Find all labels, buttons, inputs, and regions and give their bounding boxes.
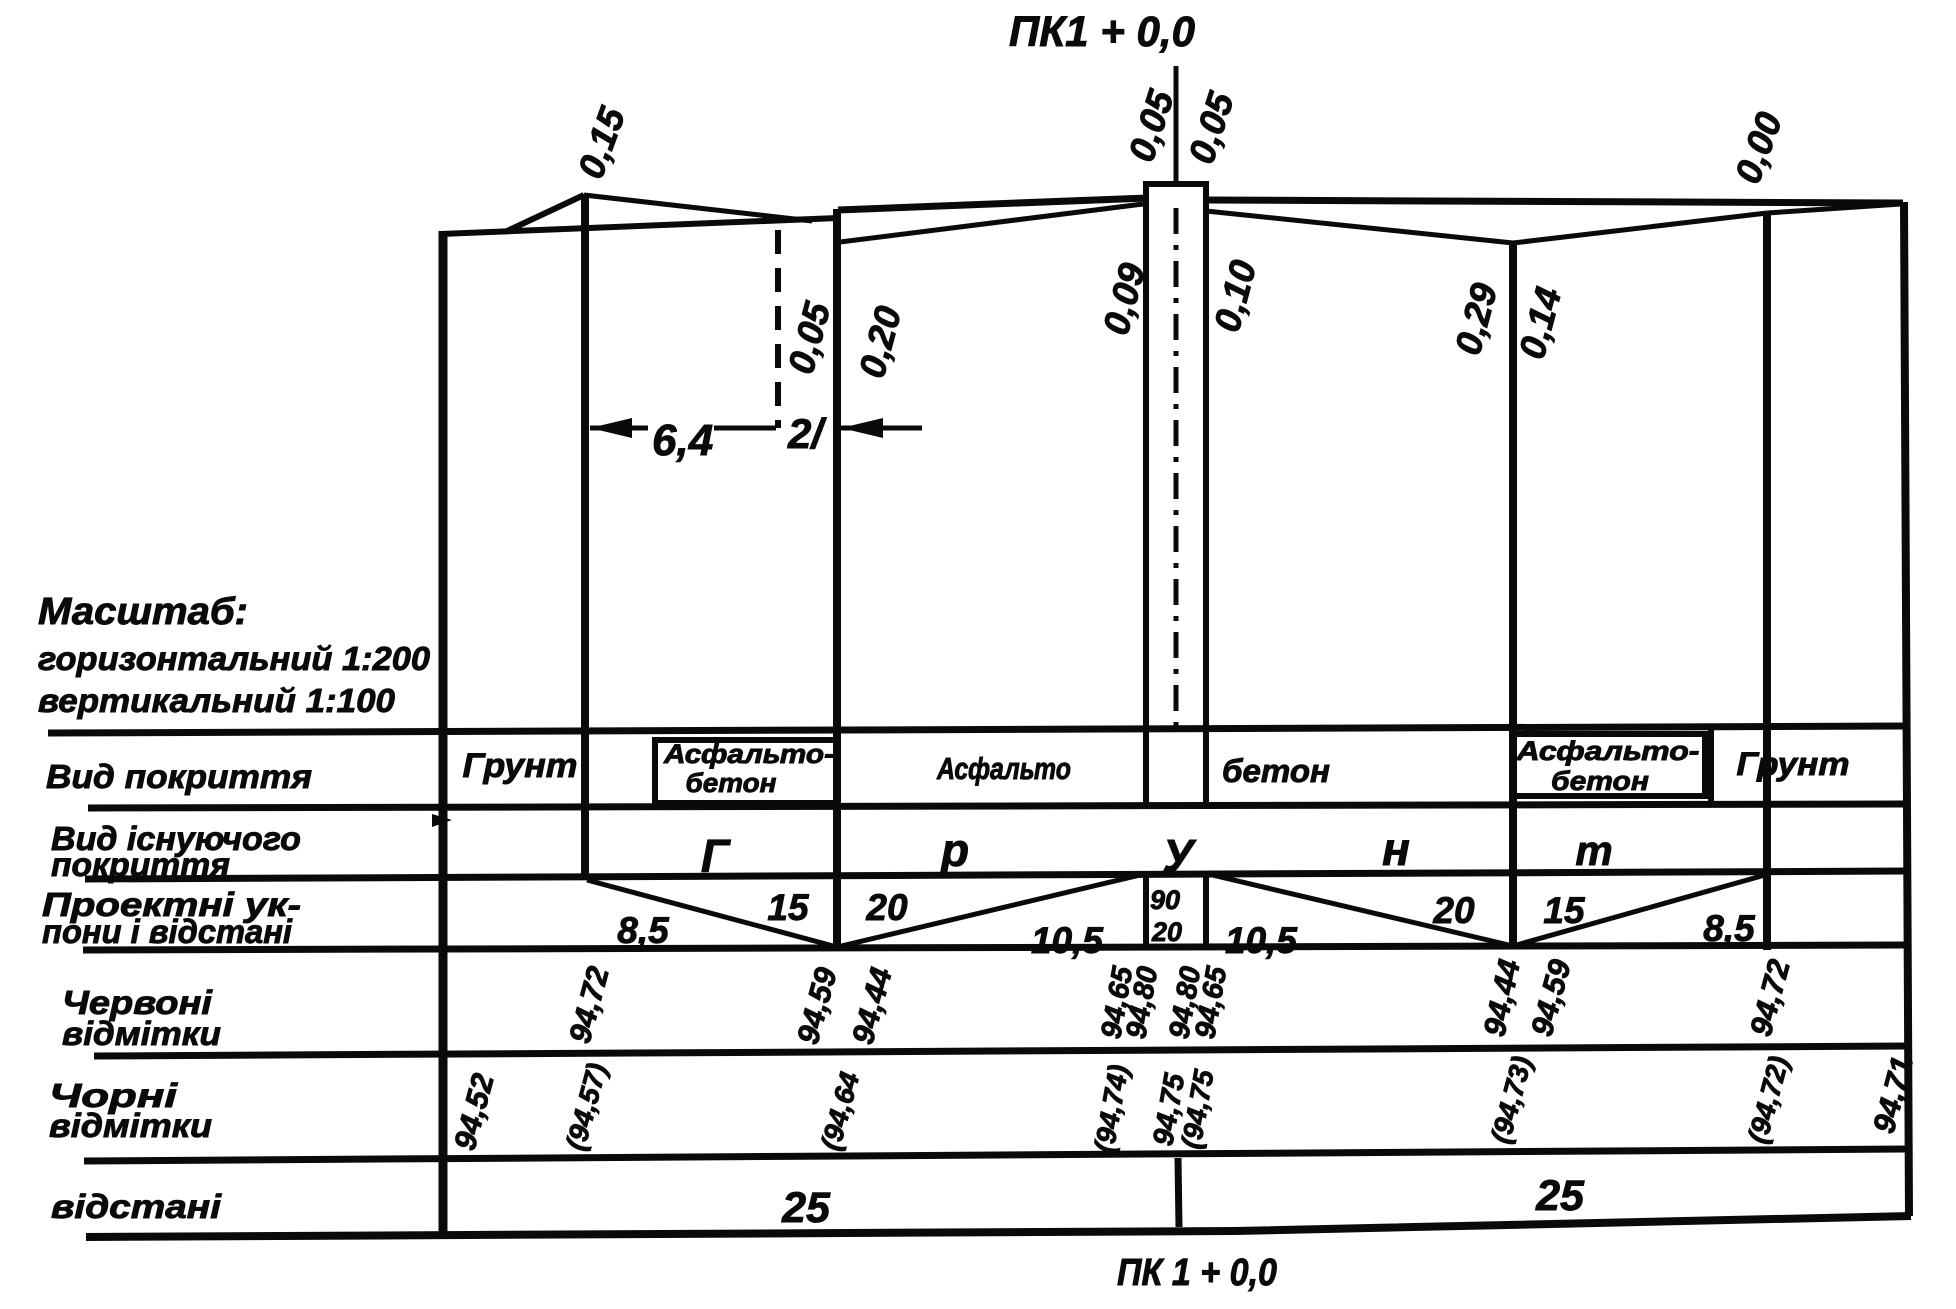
svg-text:бетон: бетон	[1222, 753, 1330, 789]
row5 black marks rotated	[447, 1053, 1920, 1155]
vertical center-right column	[1203, 200, 1209, 808]
svg-text:бетон: бетон	[1551, 766, 1649, 796]
design line rising to center	[838, 198, 1146, 210]
svg-text:Вид покриття: Вид покриття	[46, 758, 312, 795]
table left labels	[42, 758, 312, 1225]
rotated profile labels	[570, 84, 1790, 382]
svg-text:8,5: 8,5	[1703, 908, 1756, 949]
vertical at hill apex	[581, 194, 589, 878]
Masshtab block	[38, 591, 431, 719]
table horizontal line 7	[86, 1216, 1911, 1237]
svg-text:Масштаб:: Масштаб:	[38, 591, 248, 633]
hill left slope	[505, 195, 584, 232]
svg-text:2/: 2/	[787, 410, 827, 457]
vertical x1767	[1763, 213, 1771, 950]
svg-text:відмітки: відмітки	[49, 1107, 212, 1144]
row2 letters	[701, 823, 1613, 882]
svg-text:покриття: покриття	[51, 846, 230, 883]
svg-text:бетон: бетон	[686, 768, 777, 798]
slope diagram diagonals	[587, 880, 837, 947]
vertical right edge	[1904, 202, 1909, 1216]
existing ground right: to corner	[1767, 204, 1901, 213]
row1 inset box asphalt-beton right	[1513, 734, 1705, 796]
axis cap box	[1146, 184, 1206, 201]
vertical grunt right cell	[1708, 728, 1714, 804]
svg-text:20: 20	[865, 887, 908, 928]
svg-text:р: р	[939, 824, 969, 876]
svg-text:відстані: відстані	[51, 1188, 222, 1225]
svg-text:8,5: 8,5	[617, 910, 670, 951]
svg-text:ПК1 + 0,0: ПК1 + 0,0	[1009, 8, 1195, 56]
row6 divider	[1178, 1158, 1179, 1227]
svg-text:ПК 1 + 0,0: ПК 1 + 0,0	[1117, 1252, 1277, 1294]
existing ground wedge left of center	[840, 204, 1143, 242]
row4 red marks rotated	[562, 955, 1797, 1048]
table horizontal line 5	[94, 1046, 1911, 1056]
svg-text:m: m	[1575, 827, 1612, 874]
svg-text:Асфальто-: Асфальто-	[1515, 736, 1699, 766]
svg-text:Г: Г	[701, 830, 731, 882]
svg-text:Асфальто-: Асфальто-	[663, 739, 834, 769]
vertical left edge	[439, 231, 448, 1237]
svg-text:пони і відстані: пони і відстані	[42, 913, 293, 950]
design line right of center	[1206, 200, 1903, 203]
row1 cell texts	[463, 736, 1850, 798]
design line left	[441, 218, 838, 234]
table horizontal line 2	[88, 804, 1906, 808]
svg-text:90: 90	[1150, 885, 1180, 915]
vertical x838	[833, 209, 841, 948]
svg-text:Асфальто: Асфальто	[936, 751, 1071, 786]
table horizontal line 4	[83, 945, 1911, 950]
svg-text:15: 15	[1543, 890, 1586, 931]
svg-text:20: 20	[1432, 890, 1475, 931]
table horizontal line 3	[85, 871, 1911, 879]
row3 slope numbers	[617, 887, 1756, 961]
row1 inset box asphalt-beton left	[655, 740, 837, 803]
table horizontal line 1	[48, 726, 1906, 733]
svg-text:25: 25	[781, 1184, 831, 1232]
svg-text:У: У	[1162, 830, 1197, 882]
svg-text:15: 15	[767, 887, 810, 928]
svg-text:н: н	[1382, 823, 1410, 875]
table horizontal line 6	[84, 1149, 1911, 1161]
vertical x1513	[1509, 243, 1517, 948]
existing ground right: ascend	[1513, 213, 1767, 243]
dimension line 6,4 / 2,1	[590, 426, 648, 431]
svg-text:10,5: 10,5	[1225, 920, 1298, 961]
hill right slope	[584, 195, 812, 221]
svg-text:Грунт: Грунт	[463, 747, 578, 785]
row6 distances	[781, 1172, 1585, 1232]
svg-text:10,5: 10,5	[1031, 920, 1104, 961]
svg-text:25: 25	[1535, 1172, 1585, 1220]
existing ground right: descend	[1206, 211, 1513, 243]
dashed vertical dim	[775, 230, 781, 428]
svg-text:горизонтальний 1:200: горизонтальний 1:200	[38, 640, 431, 677]
svg-text:вертикальний 1:100: вертикальний 1:100	[38, 682, 396, 719]
svg-text:20: 20	[1151, 917, 1182, 947]
axis vertical thin top	[1174, 66, 1179, 186]
axis dash-dot centerline	[1174, 208, 1179, 733]
svg-text:6,4: 6,4	[652, 416, 713, 465]
svg-text:Грунт: Грунт	[1737, 746, 1850, 782]
svg-text:відмітки: відмітки	[62, 1015, 221, 1052]
row2 small arrow	[432, 814, 452, 827]
vertical center-left column	[1143, 200, 1149, 808]
